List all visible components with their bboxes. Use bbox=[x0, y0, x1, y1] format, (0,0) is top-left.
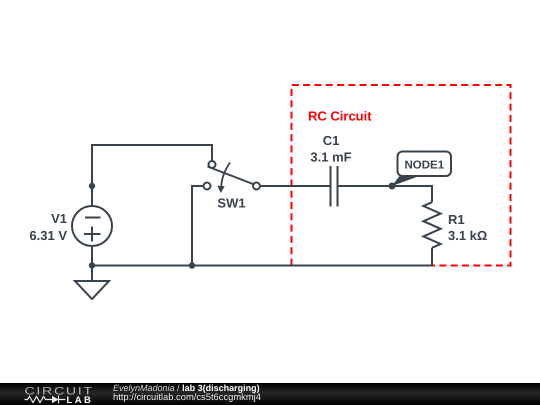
wire node to resistor bbox=[392, 186, 432, 202]
svg-text:RC Circuit: RC Circuit bbox=[308, 109, 372, 124]
bottom rail wire bbox=[92, 265, 432, 267]
capacitor C1 bbox=[331, 166, 338, 207]
svg-text:C1: C1 bbox=[323, 133, 340, 148]
CircuitLab logo: resistor-diode glyph bbox=[25, 396, 66, 404]
wire switch throw to bottom rail bbox=[192, 186, 204, 266]
RC Circuit boundary box bbox=[292, 85, 511, 266]
svg-text:6.31 V: 6.31 V bbox=[29, 228, 67, 243]
svg-text:3.1 mF: 3.1 mF bbox=[310, 150, 351, 165]
wire V1 bottom terminal bbox=[91, 246, 93, 266]
svg-text:LAB: LAB bbox=[67, 395, 94, 405]
node NODE1 flag bbox=[389, 152, 452, 190]
wire resistor to bottom rail bbox=[431, 248, 433, 266]
svg-text:3.1 kΩ: 3.1 kΩ bbox=[448, 228, 487, 243]
switch SW1 bbox=[204, 161, 261, 193]
wire capacitor to node bbox=[338, 185, 393, 187]
junction dot V1 bottom terminal bbox=[89, 262, 95, 268]
wire V1 top to switch bbox=[92, 145, 212, 206]
svg-text:SW1: SW1 bbox=[217, 196, 245, 211]
svg-text:V1: V1 bbox=[51, 211, 67, 226]
wire switch common to capacitor bbox=[260, 185, 331, 187]
svg-text:http://circuitlab.com/cs5t6ccg: http://circuitlab.com/cs5t6ccgmkmj4 bbox=[113, 391, 261, 402]
ground bbox=[75, 266, 109, 300]
resistor R1 bbox=[423, 202, 440, 248]
junction dot switch branch on bottom rail bbox=[189, 262, 195, 268]
voltage source V1 bbox=[72, 206, 112, 246]
svg-text:NODE1: NODE1 bbox=[404, 160, 444, 172]
junction dot V1 top terminal bbox=[89, 183, 95, 189]
svg-text:R1: R1 bbox=[448, 212, 465, 227]
footer bar bbox=[0, 383, 540, 405]
